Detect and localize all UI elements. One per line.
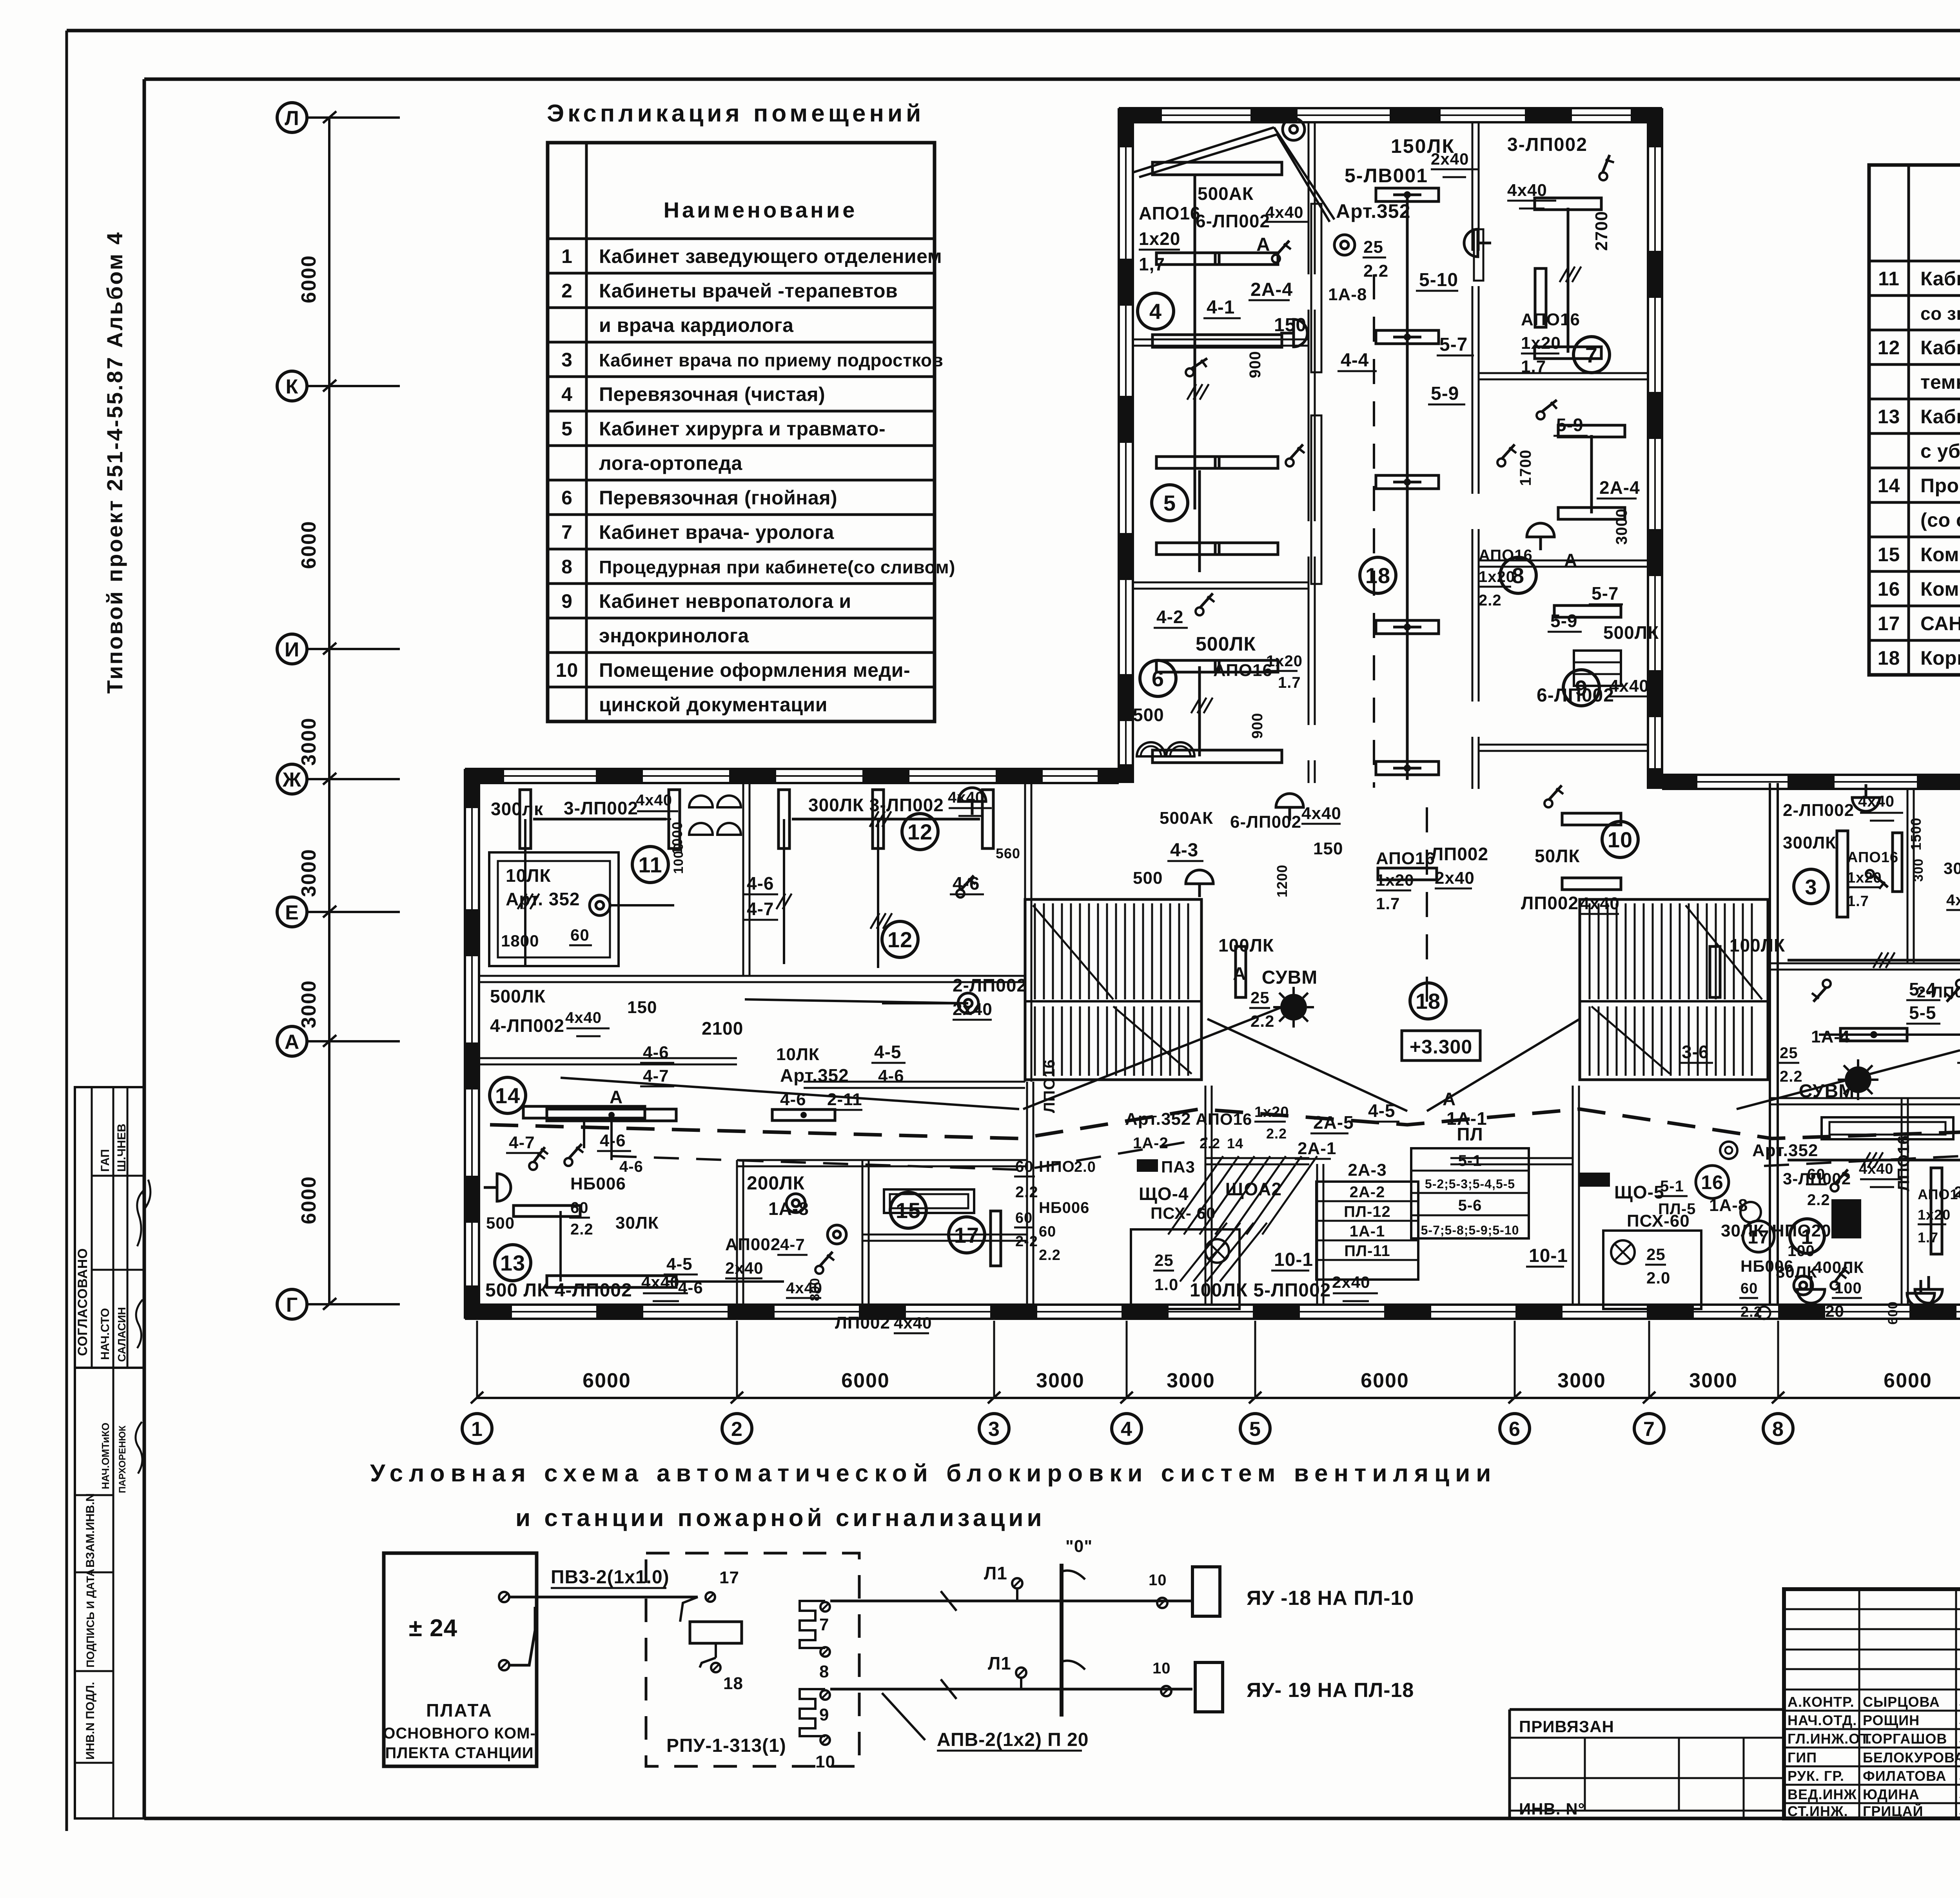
right block partitions top rooms (1907, 789, 1909, 963)
left block partition top rooms bottom (479, 975, 1025, 977)
svg-text:ПЛ-11: ПЛ-11 (1344, 1242, 1390, 1260)
svg-text:2.2: 2.2 (1250, 1012, 1274, 1030)
svg-text:А: А (1256, 234, 1270, 255)
svg-text:3000: 3000 (1689, 1369, 1738, 1392)
svg-text:3000: 3000 (1613, 508, 1630, 545)
svg-text:5-1: 5-1 (1660, 1178, 1684, 1195)
svg-text:3-6: 3-6 (1682, 1042, 1709, 1062)
svg-text:4: 4 (1121, 1418, 1132, 1441)
svg-text:ТОРГАШОВ: ТОРГАШОВ (1863, 1731, 1947, 1747)
svg-text:6000: 6000 (298, 1176, 320, 1224)
svg-text:Кабинет врача- уролога: Кабинет врача- уролога (599, 521, 834, 543)
svg-text:СЫРЦОВА: СЫРЦОВА (1863, 1694, 1940, 1710)
svg-text:500ЛК: 500ЛК (1196, 633, 1256, 655)
svg-text:2А-5: 2А-5 (1313, 1112, 1354, 1133)
wing partition corridor right (1472, 122, 1474, 251)
svg-text:10: 10 (556, 659, 579, 681)
svg-text:ЛП002: ЛП002 (1521, 893, 1579, 913)
svg-text:2100: 2100 (702, 1018, 743, 1039)
stairwell left (1025, 899, 1201, 1080)
svg-text:500 ЛК 4-ЛП002: 500 ЛК 4-ЛП002 (485, 1280, 632, 1301)
svg-text:ИНВ.N ПОДЛ.: ИНВ.N ПОДЛ. (84, 1682, 97, 1760)
svg-text:1000: 1000 (671, 843, 686, 874)
room circle 4 (1138, 293, 1174, 329)
grid axis Г (277, 1289, 307, 1319)
left block leader wires (745, 999, 968, 1003)
svg-text:АПО16: АПО16 (1918, 1186, 1960, 1202)
room 16 fixtures (1720, 1142, 1737, 1159)
svg-text:1А-1: 1А-1 (1446, 1108, 1487, 1129)
svg-text:15: 15 (896, 1198, 921, 1223)
right block room circles (1794, 869, 1828, 904)
svg-text:ВЗАМ.ИНВ.N: ВЗАМ.ИНВ.N (84, 1493, 97, 1568)
svg-text:6: 6 (1152, 666, 1164, 691)
svg-text:2А-2: 2А-2 (1350, 1184, 1385, 1201)
svg-text:4: 4 (1149, 299, 1162, 324)
stamp signatures (137, 1180, 151, 1246)
room circle 8 (1500, 557, 1536, 593)
svg-text:5-9: 5-9 (1431, 383, 1459, 404)
svg-text:2А-4: 2А-4 (1250, 279, 1293, 300)
svg-text:Кабинет хирурга и травмато-: Кабинет хирурга и травмато- (599, 418, 886, 440)
svg-text:10: 10 (1149, 1572, 1167, 1589)
room circle 9 (1563, 670, 1599, 706)
svg-text:12: 12 (907, 819, 933, 844)
svg-text:800: 800 (808, 1278, 822, 1301)
svg-text:2-2: 2-2 (1015, 1233, 1038, 1250)
svg-text:60: 60 (1015, 1158, 1034, 1175)
wing partition room8 bottom (1479, 560, 1648, 562)
svg-text:1x20: 1x20 (1479, 568, 1515, 586)
svg-text:ПА3: ПА3 (1161, 1158, 1195, 1176)
svg-text:1.7: 1.7 (1918, 1229, 1938, 1245)
svg-text:300ЛК: 300ЛК (1783, 833, 1836, 852)
wing room4 fixtures (1152, 162, 1282, 175)
svg-text:2x40: 2x40 (1332, 1273, 1370, 1291)
svg-text:со звукоизолированной кабиной: со звукоизолированной кабиной (1920, 303, 1960, 324)
svg-text:лога-ортопеда: лога-ортопеда (599, 452, 742, 474)
wing entrance canopy (1133, 127, 1274, 172)
svg-text:2-ЛП002: 2-ЛП002 (1917, 984, 1960, 1001)
svg-text:АП002: АП002 (725, 1235, 780, 1254)
svg-text:5-7: 5-7 (1439, 334, 1468, 355)
svg-text:АПВ-2(1x2) П 20: АПВ-2(1x2) П 20 (937, 1729, 1089, 1750)
svg-text:1А-2: 1А-2 (1133, 1135, 1169, 1152)
svg-text:900: 900 (1247, 351, 1264, 378)
long wiring diagonal leaders (561, 1078, 1019, 1109)
grid axis 5 (1254, 1321, 1256, 1398)
svg-text:3-ЛП002: 3-ЛП002 (1783, 1169, 1851, 1188)
svg-text:9: 9 (561, 590, 573, 612)
svg-text:5-6: 5-6 (1458, 1197, 1482, 1214)
svg-text:1А-1: 1А-1 (1350, 1223, 1385, 1240)
svg-text:ПОДПИСЬ И ДАТА: ПОДПИСЬ И ДАТА (84, 1569, 96, 1668)
svg-text:6000: 6000 (1361, 1369, 1409, 1392)
svg-text:3000: 3000 (298, 848, 320, 897)
svg-text:1800: 1800 (501, 932, 539, 950)
svg-text:2А-4: 2А-4 (1599, 477, 1640, 498)
shaft diagonal hatch (1168, 1156, 1223, 1235)
svg-text:15: 15 (1878, 544, 1900, 566)
svg-text:1.7: 1.7 (1847, 893, 1869, 910)
right block top room fixtures (1837, 831, 1848, 917)
relay contact 18 (715, 1643, 717, 1658)
svg-text:25: 25 (1250, 988, 1270, 1007)
svg-text:150: 150 (1274, 315, 1307, 335)
wing room8 fixtures (1558, 425, 1625, 437)
svg-text:6000: 6000 (298, 255, 320, 303)
right block bottom room fixtures (1931, 1168, 1942, 1254)
svg-text:АПО16: АПО16 (1139, 203, 1201, 223)
grid axis column line (328, 118, 330, 1305)
svg-text:ВЕД.ИНЖ: ВЕД.ИНЖ (1788, 1786, 1857, 1802)
svg-text:Кабинет офтальмолога с: Кабинет офтальмолога с (1920, 337, 1960, 359)
svg-text:Экспликация помещений: Экспликация помещений (547, 100, 924, 127)
svg-text:1200: 1200 (1274, 865, 1290, 897)
output box ЯУ-19 (1195, 1662, 1223, 1712)
svg-text:4x40: 4x40 (1507, 181, 1547, 200)
center partitions below corridor (1205, 1086, 1207, 1305)
panel ЩОА2 table (1316, 1182, 1418, 1280)
svg-text:500ЛК: 500ЛК (490, 986, 546, 1006)
left block fixtures room11 (520, 790, 531, 848)
svg-text:18: 18 (723, 1674, 743, 1693)
svg-text:6000: 6000 (841, 1369, 890, 1392)
svg-text:17: 17 (954, 1223, 979, 1247)
svg-text:3-ЛП002: 3-ЛП002 (564, 798, 638, 818)
svg-text:4x40: 4x40 (565, 1009, 602, 1026)
svg-text:Процедурная при кабинете: Процедурная при кабинете (1920, 475, 1960, 497)
svg-text:4x40: 4x40 (1946, 892, 1960, 909)
svg-text:Л: Л (285, 107, 299, 130)
svg-text:25: 25 (1646, 1245, 1666, 1264)
svg-text:18: 18 (1878, 647, 1900, 669)
svg-text:НАЧ.СТО: НАЧ.СТО (99, 1308, 112, 1360)
svg-text:4-7: 4-7 (780, 1235, 805, 1254)
left block round lamps (786, 1194, 805, 1213)
svg-text:Кабинет врача по приему подрос: Кабинет врача по приему подростков (599, 350, 943, 370)
svg-text:цинской документации: цинской документации (599, 694, 828, 716)
svg-text:НАЧ.ОМТиКО: НАЧ.ОМТиКО (100, 1423, 111, 1489)
building exterior wall - bar left (464, 769, 466, 1319)
svg-text:1А-4: 1А-4 (1811, 1027, 1850, 1046)
svg-text:17: 17 (1878, 613, 1900, 634)
svg-text:ЩО-5: ЩО-5 (1614, 1182, 1664, 1202)
svg-text:150: 150 (1313, 839, 1343, 858)
svg-text:Комната личной гигиены: Комната личной гигиены (1920, 578, 1960, 600)
svg-text:500ЛК: 500ЛК (1603, 622, 1659, 643)
svg-text:СТ.ИНЖ.: СТ.ИНЖ. (1788, 1803, 1848, 1819)
station plate box (384, 1553, 537, 1766)
svg-text:СОГЛАСОВАНО: СОГЛАСОВАНО (75, 1248, 90, 1356)
svg-text:6: 6 (1509, 1418, 1521, 1441)
room 16 circle (1696, 1166, 1729, 1198)
svg-text:5-2;5-3;5-4,5-5: 5-2;5-3;5-4,5-5 (1425, 1177, 1515, 1191)
svg-text:4-7: 4-7 (509, 1133, 535, 1152)
svg-text:РПУ-1-313(1): РПУ-1-313(1) (666, 1735, 786, 1756)
zero bus (1060, 1564, 1063, 1717)
svg-text:Процедурная при кабинете(со сл: Процедурная при кабинете(со сливом) (599, 557, 955, 577)
wing room9 fixtures (1554, 605, 1621, 617)
center corridor circle 18 (1410, 983, 1446, 1019)
grid axis 7 (1648, 1321, 1650, 1398)
svg-text:1x20: 1x20 (1139, 228, 1180, 249)
svg-text:БЕЛОКУРОВА: БЕЛОКУРОВА (1863, 1749, 1960, 1766)
right block bottom fixtures lamps (1797, 1276, 1825, 1303)
right block switch details (1866, 870, 1888, 889)
vent fans (1137, 742, 1165, 756)
svg-text:100ЛК 5-ЛП002: 100ЛК 5-ЛП002 (1190, 1280, 1331, 1301)
svg-text:10ЛК: 10ЛК (506, 865, 551, 886)
svg-text:13: 13 (1878, 406, 1900, 428)
svg-text:А: А (1564, 550, 1577, 570)
svg-text:ОСНОВНОГО КОМ-: ОСНОВНОГО КОМ- (383, 1725, 535, 1742)
svg-text:9: 9 (819, 1705, 829, 1724)
svg-text:3-ЛП002: 3-ЛП002 (1507, 134, 1588, 155)
svg-text:6-ЛП002: 6-ЛП002 (1537, 685, 1614, 706)
svg-text:4-2: 4-2 (1156, 607, 1183, 627)
svg-text:ГИП: ГИП (1788, 1749, 1817, 1766)
svg-text:1x20: 1x20 (1266, 653, 1303, 670)
svg-text:Условная схема автоматической: Условная схема автоматической блокировки… (370, 1460, 1497, 1487)
svg-text:10-1: 10-1 (1274, 1249, 1313, 1270)
building exterior wall - bar bottom (465, 1303, 1960, 1306)
svg-text:3000: 3000 (1557, 1369, 1606, 1392)
svg-text:Арт.352: Арт.352 (780, 1065, 849, 1086)
svg-text:4-5: 4-5 (666, 1254, 693, 1274)
svg-text:200ЛК: 200ЛК (747, 1173, 805, 1194)
svg-text:4x40: 4x40 (1609, 676, 1649, 696)
svg-text:эндокринолога: эндокринолога (599, 625, 749, 647)
svg-text:Ш.ЧНЕВ: Ш.ЧНЕВ (115, 1124, 128, 1172)
SUVM fixtures (1280, 994, 1307, 1021)
elevation mark +3.300 (1402, 1031, 1480, 1060)
svg-text:25: 25 (1363, 237, 1383, 257)
svg-text:4-1: 4-1 (1207, 297, 1235, 318)
svg-text:4: 4 (561, 383, 573, 405)
svg-text:НБ006: НБ006 (1039, 1199, 1089, 1216)
wing partition room9 bottom (1479, 744, 1648, 746)
svg-text:500АК: 500АК (1160, 809, 1213, 828)
grid axis 8 (1777, 1321, 1779, 1398)
svg-text:НАЧ.ОТД.: НАЧ.ОТД. (1788, 1712, 1857, 1728)
svg-text:ЛП002: ЛП002 (1431, 844, 1488, 864)
svg-text:2А-3: 2А-3 (1348, 1160, 1387, 1180)
svg-text:САНУЗЕЛ: САНУЗЕЛ (1920, 613, 1960, 634)
svg-text:4-4: 4-4 (1341, 350, 1369, 371)
svg-text:5-7: 5-7 (1592, 583, 1619, 604)
svg-text:ПВ3-2(1x1.0): ПВ3-2(1x1.0) (551, 1567, 670, 1588)
svg-text:ГРИЦАЙ: ГРИЦАЙ (1863, 1803, 1923, 1819)
svg-text:600: 600 (1886, 1301, 1900, 1325)
grid axis 4 (1126, 1321, 1128, 1398)
grid axis 3 (993, 1321, 995, 1398)
relay box РПУ-1-313(1) dashed (646, 1553, 859, 1766)
svg-text:500АК: 500АК (1198, 183, 1254, 204)
wing corridor lamp chain 5-ЛВ001 (1406, 196, 1409, 780)
plate terminal 1 (499, 1592, 509, 1602)
left block sound cabin room11 (489, 852, 619, 966)
wing wall lamps (1280, 319, 1307, 347)
left block wiring chains (524, 819, 526, 966)
building exterior wall - bar top right (1662, 774, 1960, 776)
svg-text:2x40: 2x40 (1435, 868, 1475, 888)
panel ПЛ table (1411, 1148, 1529, 1238)
svg-text:14: 14 (495, 1083, 520, 1108)
svg-text:2x40: 2x40 (1431, 150, 1469, 168)
svg-text:6000: 6000 (1884, 1369, 1932, 1392)
svg-text:1x20: 1x20 (1254, 1104, 1289, 1120)
svg-text:2.2: 2.2 (1039, 1247, 1061, 1264)
grid axis Ж (277, 764, 307, 794)
svg-text:16: 16 (1878, 578, 1900, 600)
svg-text:11: 11 (1878, 268, 1900, 290)
svg-text:60: 60 (570, 926, 590, 944)
svg-text:Наименование: Наименование (664, 198, 858, 222)
svg-text:10: 10 (815, 1752, 835, 1771)
svg-text:ЛПО16: ЛПО16 (1894, 1135, 1913, 1191)
svg-text:2.0: 2.0 (1646, 1269, 1670, 1287)
svg-text:8: 8 (819, 1662, 829, 1681)
svg-text:А: А (285, 1031, 300, 1053)
svg-text:5-7;5-8;5-9;5-10: 5-7;5-8;5-9;5-10 (1421, 1223, 1519, 1237)
grid axis А (277, 1026, 307, 1056)
svg-text:13: 13 (500, 1251, 525, 1275)
wing room6 fixtures (1156, 660, 1219, 672)
svg-text:1А-8: 1А-8 (768, 1198, 809, 1219)
svg-text:5: 5 (561, 418, 573, 440)
svg-text:8: 8 (561, 556, 573, 578)
svg-text:4x40: 4x40 (948, 789, 984, 806)
svg-text:6-ЛП002: 6-ЛП002 (1230, 812, 1301, 832)
wing duct shafts (1311, 204, 1321, 372)
svg-text:300ЛК 3-ЛП002: 300ЛК 3-ЛП002 (808, 795, 944, 815)
left block partitions bottom rooms (736, 1160, 738, 1305)
relay contact 17 (706, 1592, 715, 1602)
svg-text:10: 10 (1608, 827, 1633, 852)
svg-text:25: 25 (1154, 1251, 1174, 1269)
svg-text:1: 1 (471, 1418, 483, 1441)
svg-text:1500: 1500 (1908, 818, 1924, 850)
svg-text:Арт.352: Арт.352 (1125, 1109, 1191, 1129)
svg-text:Л1: Л1 (988, 1653, 1011, 1673)
svg-text:4-7: 4-7 (747, 899, 774, 919)
svg-text:1.7: 1.7 (1376, 894, 1400, 913)
svg-text:11: 11 (638, 852, 662, 877)
room circle 6 (1140, 660, 1176, 696)
svg-text:ПЛАТА: ПЛАТА (426, 1700, 493, 1720)
svg-text:4-6: 4-6 (747, 873, 774, 894)
svg-text:РУК. ГР.: РУК. ГР. (1788, 1768, 1844, 1784)
svg-text:2.2: 2.2 (1363, 261, 1388, 281)
svg-text:НБ006: НБ006 (570, 1174, 626, 1193)
title block rows left (1784, 1608, 1960, 1610)
left block fixtures room12 (779, 790, 789, 848)
svg-text:1,7: 1,7 (1139, 254, 1165, 274)
grid axis И (277, 634, 307, 664)
svg-text:6-ЛП002: 6-ЛП002 (1196, 211, 1270, 231)
svg-text:5-5: 5-5 (1909, 1002, 1936, 1023)
svg-text:4-ЛП002: 4-ЛП002 (490, 1015, 564, 1036)
svg-text:2700: 2700 (1592, 211, 1611, 251)
svg-text:Е: Е (285, 901, 299, 924)
grid axis К (277, 371, 307, 401)
svg-text:ЩО-4: ЩО-4 (1139, 1184, 1189, 1204)
svg-text:Кабинет невропатолога и: Кабинет невропатолога и (599, 590, 851, 612)
wing partition room7 bottom (1479, 372, 1648, 374)
svg-text:2-ЛП002: 2-ЛП002 (953, 975, 1027, 995)
svg-text:Кабинет дерматовенеролога: Кабинет дерматовенеролога (1920, 406, 1960, 428)
svg-text:17: 17 (719, 1568, 739, 1587)
svg-text:ГАП: ГАП (99, 1149, 112, 1172)
grid axis Е (277, 897, 307, 927)
left block partition 11|12 (742, 783, 744, 976)
grid axis Л (277, 103, 307, 132)
svg-text:8: 8 (1772, 1418, 1784, 1441)
svg-text:500: 500 (486, 1214, 515, 1232)
svg-text:2.2: 2.2 (1015, 1184, 1038, 1201)
svg-text:5-9: 5-9 (1556, 415, 1583, 435)
sheet inner frame (144, 78, 1960, 81)
svg-text:900: 900 (1249, 713, 1266, 739)
svg-text:и станции пожарной сигнализ: и станции пожарной сигнализации (515, 1505, 1045, 1532)
grid bottom dimension line (477, 1397, 1960, 1399)
svg-text:17: 17 (1748, 1227, 1769, 1248)
svg-text:2.2: 2.2 (1780, 1068, 1803, 1085)
svg-text:Комната персонала: Комната персонала (1920, 544, 1960, 566)
svg-text:30ЛК: 30ЛК (615, 1213, 659, 1233)
svg-text:3000: 3000 (1167, 1369, 1215, 1392)
svg-text:4x40: 4x40 (1265, 203, 1303, 221)
svg-text:500: 500 (1133, 705, 1164, 725)
building exterior wall - bar top left (465, 768, 1119, 770)
svg-text:4x40: 4x40 (894, 1314, 932, 1332)
wing lamps bottom (1378, 868, 1437, 880)
svg-text:1А-8: 1А-8 (1328, 285, 1367, 304)
svg-text:Л1: Л1 (984, 1563, 1007, 1583)
right block chain along bottom rooms (1788, 1159, 1960, 1162)
svg-text:А: А (1443, 1089, 1456, 1109)
svg-text:4-6: 4-6 (619, 1158, 643, 1175)
svg-text:ЛПО16: ЛПО16 (1041, 1059, 1058, 1113)
svg-text:2: 2 (561, 280, 573, 302)
svg-text:Кабинет оториноларинголога: Кабинет оториноларинголога (1920, 268, 1960, 290)
left block fixtures room15 (884, 1189, 974, 1213)
right block cove lamps (1822, 1117, 1953, 1139)
wire contacts to outputs bottom (830, 1688, 1192, 1691)
svg-text:АПО16: АПО16 (1213, 661, 1272, 680)
relay coil (690, 1622, 742, 1643)
svg-text:5-9: 5-9 (1550, 611, 1577, 631)
svg-text:Ж: Ж (282, 769, 301, 791)
svg-text:1700: 1700 (1517, 450, 1534, 486)
svg-text:2А-1: 2А-1 (1298, 1139, 1336, 1158)
svg-text:4x40: 4x40 (1301, 804, 1341, 823)
svg-text:1x20: 1x20 (1521, 334, 1561, 353)
explication table left (548, 143, 935, 721)
svg-text:ГЛ.ИНЖ.ОТ.: ГЛ.ИНЖ.ОТ. (1788, 1731, 1872, 1747)
left block corridor lamps (547, 1109, 676, 1121)
wing partition corridor left (1308, 122, 1310, 274)
grid axis 2 (736, 1321, 738, 1398)
plate terminal 2 (499, 1660, 509, 1670)
svg-text:ЯУ -18 НА ПЛ-10: ЯУ -18 НА ПЛ-10 (1247, 1587, 1414, 1610)
svg-text:4-5: 4-5 (1368, 1100, 1395, 1121)
svg-text:ПЛ-12: ПЛ-12 (1344, 1203, 1391, 1220)
room circle 10 (1602, 821, 1638, 857)
wing partition room4-5 (1133, 339, 1308, 341)
svg-text:10ЛК: 10ЛК (776, 1045, 820, 1064)
